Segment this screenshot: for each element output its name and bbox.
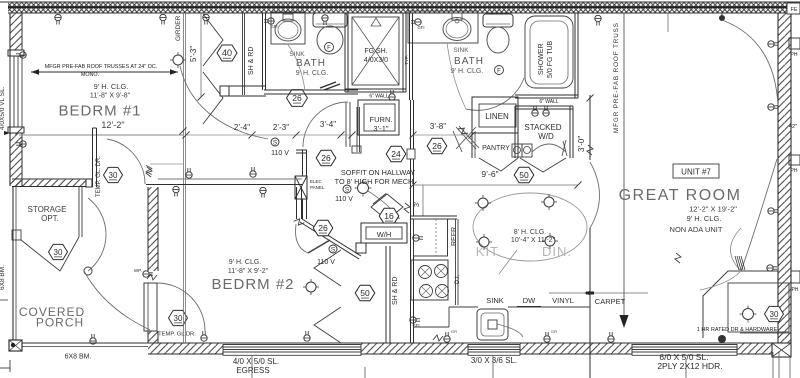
svg-text:9' H. CLG.: 9' H. CLG. xyxy=(94,82,129,91)
svg-text:GFI: GFI xyxy=(451,330,457,334)
svg-text:BATH: BATH xyxy=(296,58,326,69)
svg-text:26: 26 xyxy=(292,93,302,103)
svg-text:KIT.: KIT. xyxy=(476,244,502,259)
svg-text:STORAGE: STORAGE xyxy=(28,205,67,214)
svg-text:OPT.: OPT. xyxy=(41,214,59,223)
svg-text:2’-4": 2’-4" xyxy=(234,123,250,132)
svg-text:30: 30 xyxy=(770,310,779,319)
svg-text:6X8 BM.: 6X8 BM. xyxy=(65,354,92,361)
svg-text:50: 50 xyxy=(360,288,370,298)
svg-text:2PLY 2X12 HDR.: 2PLY 2X12 HDR. xyxy=(657,361,722,371)
svg-text:PANEL: PANEL xyxy=(310,185,325,190)
svg-text:SINK: SINK xyxy=(486,296,504,305)
svg-text:5/0 FG TUB: 5/0 FG TUB xyxy=(547,40,554,78)
svg-text:LINEN: LINEN xyxy=(485,112,509,121)
svg-text:REFR: REFR xyxy=(451,227,458,246)
svg-text:GIRDER: GIRDER xyxy=(175,15,182,41)
svg-text:BATH: BATH xyxy=(454,56,484,67)
svg-text:BEDRM #1: BEDRM #1 xyxy=(58,103,141,120)
svg-text:10’-4" X 11’-2": 10’-4" X 11’-2" xyxy=(511,237,556,244)
svg-text:1 HR RATED DR & HARDWARE: 1 HR RATED DR & HARDWARE xyxy=(697,327,778,333)
svg-text:9' H. CLG.: 9' H. CLG. xyxy=(229,259,262,266)
svg-text:WP.: WP. xyxy=(134,268,142,273)
svg-text:12’-2" X 19’-2": 12’-2" X 19’-2" xyxy=(689,205,737,214)
svg-text:NON ADA UNIT: NON ADA UNIT xyxy=(670,225,723,234)
svg-text:30: 30 xyxy=(54,248,63,257)
svg-text:MONO.: MONO. xyxy=(81,72,99,78)
svg-text:30: 30 xyxy=(174,314,183,323)
svg-text:3/0 X 3/6 SL.: 3/0 X 3/6 SL. xyxy=(471,356,517,365)
svg-text:PH: PH xyxy=(792,287,799,293)
svg-text:TEMP. GL. DR.: TEMP. GL. DR. xyxy=(96,156,102,197)
svg-text:8' H. CLG.: 8' H. CLG. xyxy=(514,229,547,236)
svg-text:MFGR PRE-FAB ROOF TRUSSES AT 2: MFGR PRE-FAB ROOF TRUSSES AT 24" OC. xyxy=(45,64,157,70)
svg-text:GFI: GFI xyxy=(551,330,557,334)
svg-text:4/0X3/0: 4/0X3/0 xyxy=(364,57,388,64)
svg-text:SOFFIT ON HALLWAY: SOFFIT ON HALLWAY xyxy=(341,168,415,177)
svg-text:MFGR PRE-FAB ROOF TRUSS: MFGR PRE-FAB ROOF TRUSS xyxy=(613,22,620,133)
svg-text:TEMP. GL DR.: TEMP. GL DR. xyxy=(158,332,196,338)
svg-text:26: 26 xyxy=(318,223,328,233)
svg-text:BEDRM #2: BEDRM #2 xyxy=(211,276,294,293)
svg-text:TYP.: TYP. xyxy=(404,55,409,64)
svg-text:4/0 X 5/0 SL.: 4/0 X 5/0 SL. xyxy=(233,357,279,366)
svg-text:W/H: W/H xyxy=(377,230,392,239)
svg-text:PORCH: PORCH xyxy=(36,316,84,330)
svg-text:SHOWER: SHOWER xyxy=(538,44,545,76)
svg-text:26: 26 xyxy=(321,153,331,163)
svg-text:GFI: GFI xyxy=(418,25,425,30)
svg-text:2’-3": 2’-3" xyxy=(273,123,289,132)
svg-text:STACKED: STACKED xyxy=(524,123,561,132)
svg-text:3’-4": 3’-4" xyxy=(320,120,336,129)
svg-text:110 V: 110 V xyxy=(271,150,289,157)
svg-text:40: 40 xyxy=(222,48,232,58)
svg-text:D.I.: D.I. xyxy=(455,274,461,284)
svg-text:6" WALL: 6" WALL xyxy=(539,99,559,105)
svg-text:CARPET: CARPET xyxy=(595,297,626,306)
svg-text:5’-3": 5’-3" xyxy=(189,46,198,62)
svg-text:42": 42" xyxy=(789,124,797,130)
svg-text:FE: FE xyxy=(790,7,797,13)
svg-text:50: 50 xyxy=(519,170,529,180)
svg-text:11’-8" X 9’-2": 11’-8" X 9’-2" xyxy=(228,268,269,275)
svg-text:110 V: 110 V xyxy=(335,196,353,203)
svg-text:3’: 3’ xyxy=(414,201,421,207)
svg-text:PH: PH xyxy=(791,52,798,58)
svg-text:S: S xyxy=(273,140,278,147)
svg-text:SINK: SINK xyxy=(453,47,469,54)
svg-text:PANTRY: PANTRY xyxy=(482,145,510,152)
svg-text:3’-0": 3’-0" xyxy=(577,136,586,152)
svg-text:SH & RD: SH & RD xyxy=(248,47,255,75)
svg-text:6X8 BM.: 6X8 BM. xyxy=(0,265,6,290)
svg-text:9' H. CLG.: 9' H. CLG. xyxy=(451,68,484,75)
svg-text:ELEC: ELEC xyxy=(310,179,323,184)
svg-text:S: S xyxy=(331,247,336,254)
svg-text:SH & RD: SH & RD xyxy=(392,277,399,305)
svg-text:24: 24 xyxy=(391,149,401,159)
svg-text:30: 30 xyxy=(109,171,118,180)
svg-text:DW: DW xyxy=(523,296,536,305)
svg-text:9’-6": 9’-6" xyxy=(481,169,498,179)
svg-text:PH: PH xyxy=(791,168,798,174)
svg-text:F: F xyxy=(497,69,501,75)
svg-text:VINYL: VINYL xyxy=(552,296,574,305)
svg-text:26: 26 xyxy=(432,141,442,151)
svg-text:6" WALL: 6" WALL xyxy=(369,94,389,100)
svg-text:S: S xyxy=(345,187,350,194)
svg-text:W/D: W/D xyxy=(538,132,554,141)
svg-text:3’-1": 3’-1" xyxy=(373,124,389,133)
svg-text:9' H. CLG.: 9' H. CLG. xyxy=(687,214,722,223)
svg-text:FURN.: FURN. xyxy=(370,115,393,124)
svg-text:16: 16 xyxy=(384,211,394,221)
svg-text:11’-8" X 9’-8": 11’-8" X 9’-8" xyxy=(90,93,131,100)
svg-text:F: F xyxy=(327,46,331,52)
svg-text:EGRESS: EGRESS xyxy=(236,366,269,375)
svg-text:3’-8": 3’-8" xyxy=(430,122,446,131)
svg-text:SINK: SINK xyxy=(289,51,305,58)
svg-text:4/0X5/0 VL SL.: 4/0X5/0 VL SL. xyxy=(0,86,6,130)
svg-text:DIN.: DIN. xyxy=(542,244,572,259)
svg-text:GREAT ROOM: GREAT ROOM xyxy=(619,187,742,204)
svg-text:UNIT #7: UNIT #7 xyxy=(681,168,711,177)
svg-text:FG SH.: FG SH. xyxy=(364,48,387,55)
svg-text:12’-2": 12’-2" xyxy=(101,120,124,130)
